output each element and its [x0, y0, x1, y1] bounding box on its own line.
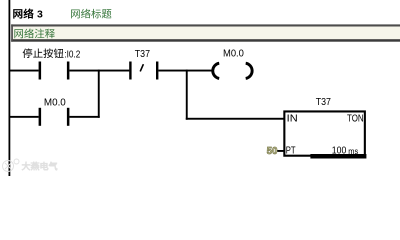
node branch to timer box (vertical wire down) [186, 70, 188, 120]
network comment text 网络注释 [14, 29, 55, 39]
svg-text:PT: PT [286, 145, 296, 157]
label 停止按钮:I0.2 [23, 48, 81, 60]
svg-text:M0.0: M0.0 [44, 97, 66, 109]
contact T37 (NC) [129, 62, 158, 80]
wire rung1 from contact I0.2 to contact T37 [69, 70, 129, 72]
wire rung1 from contact T37 to coil [158, 70, 212, 72]
wire feed to timer IN pin [186, 118, 284, 120]
svg-text:T37: T37 [316, 96, 331, 108]
network title text 网络标题 [71, 9, 111, 19]
svg-text:3: 3 [37, 9, 43, 21]
contact 停止按钮:I0.2 (NO) [39, 62, 70, 80]
wire rung1 from rail to contact I0.2 [10, 70, 39, 72]
coil M0.0 [213, 63, 252, 78]
network label 网络 3 [13, 8, 43, 20]
wire rung2 from contact M0.0 to junction [69, 116, 99, 118]
node junction of parallel branch (vertical wire down to rung2) [98, 70, 100, 118]
svg-text:IN: IN [287, 113, 298, 125]
svg-text:T37: T37 [135, 48, 150, 60]
left power rail [9, 0, 11, 176]
contact M0.0 (NO) [39, 108, 70, 126]
network comment box [11, 24, 400, 41]
svg-text:50: 50 [267, 145, 278, 157]
timer box T37 TON [284, 111, 365, 155]
wire tick from 50 to PT pin [277, 150, 284, 152]
watermark logo [3, 159, 20, 172]
selection cursor bar (thick black) [310, 154, 366, 159]
wire rung2 from rail to contact M0.0 [10, 116, 39, 118]
svg-text:M0.0: M0.0 [223, 48, 244, 60]
svg-text::I0.2: :I0.2 [64, 48, 80, 60]
watermark text [22, 162, 57, 170]
svg-text:TON: TON [347, 113, 364, 125]
